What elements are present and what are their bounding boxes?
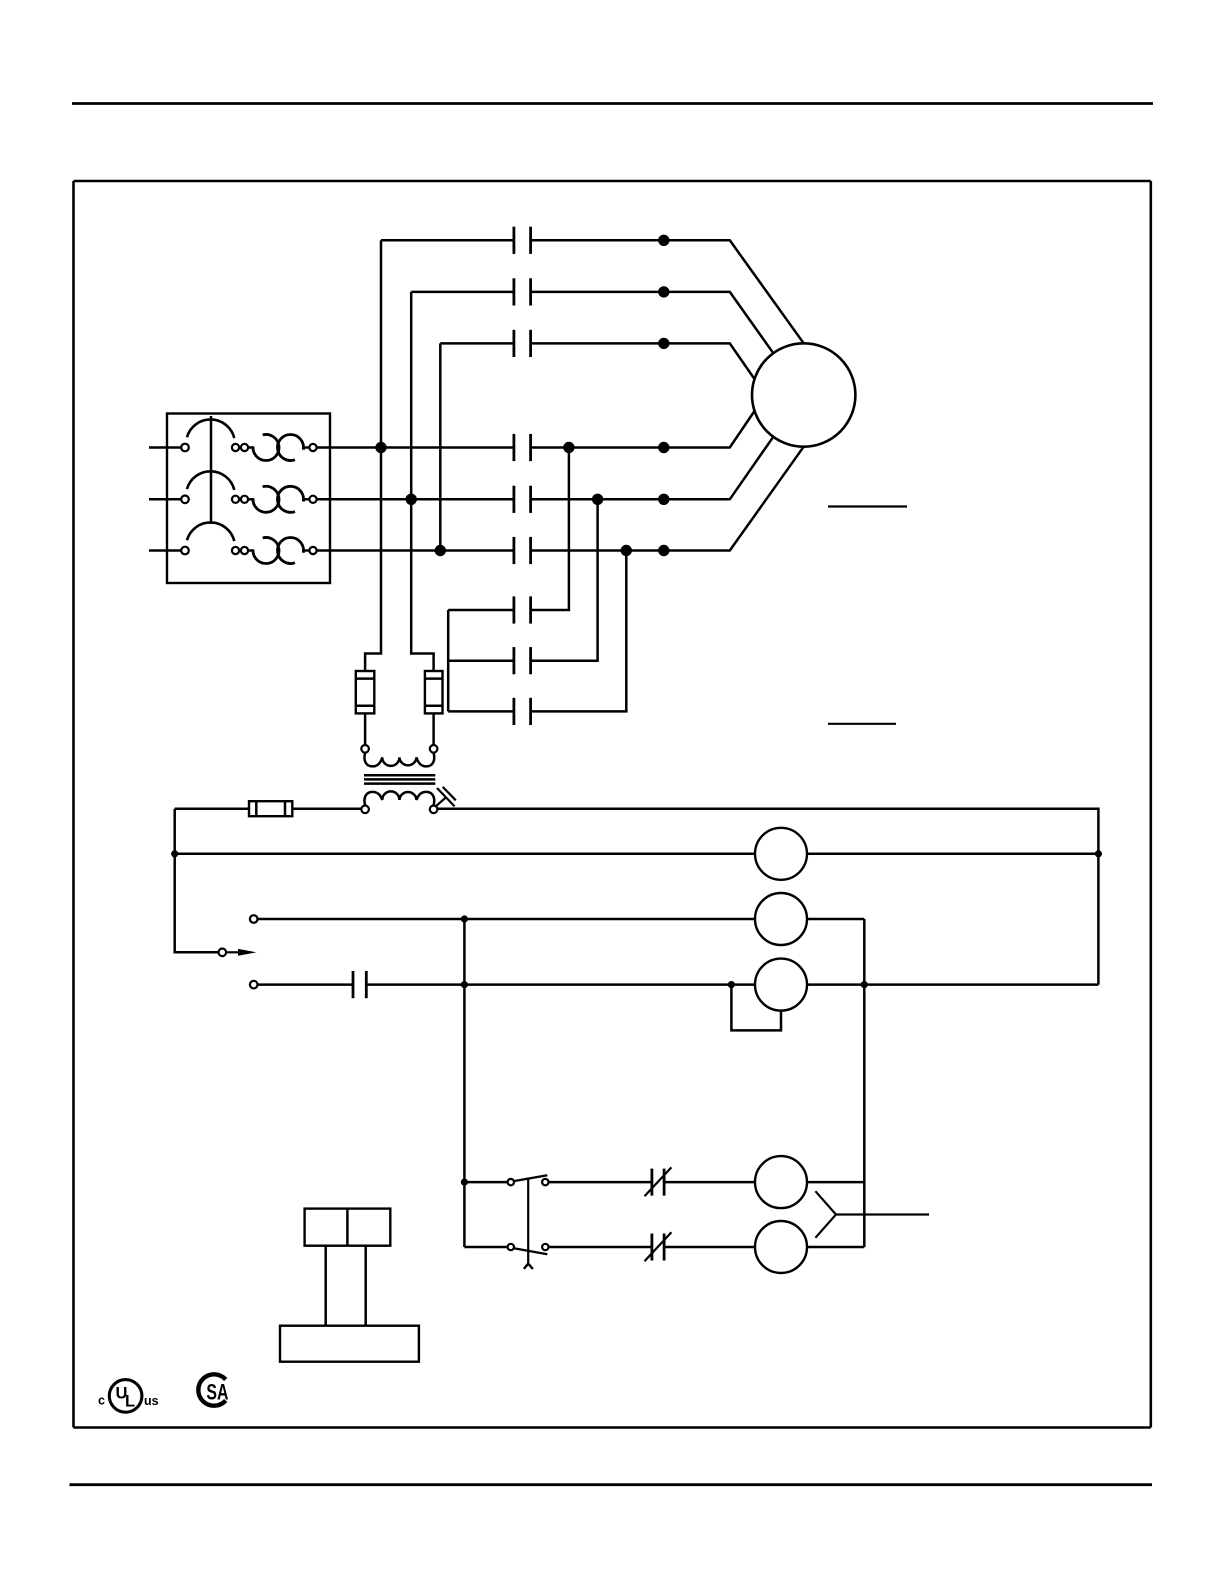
wire L1 (317, 446, 514, 449)
wire tap L2 to fuse F2 (411, 499, 433, 671)
star point wire (447, 610, 450, 711)
wire star contact 2 riser (531, 499, 598, 660)
coil loop wire (731, 985, 781, 1031)
CB1 pole 1 line terminal (181, 444, 189, 452)
coil M (755, 893, 807, 945)
wire riser to run contact 3 (439, 343, 442, 550)
wire run contact 1 to motor node (531, 239, 664, 242)
motor lead T5 (664, 437, 774, 500)
selector switch arrow (226, 951, 239, 953)
overload heater OL pole 2 (253, 486, 279, 512)
wire riser to run contact 2 (410, 292, 413, 499)
wire run contact 3 to motor node (531, 342, 664, 345)
node star riser 3 (621, 545, 632, 556)
wire row5 mid (549, 1181, 652, 1184)
node star riser 1 (563, 442, 574, 453)
wire row6 mid (549, 1246, 652, 1249)
wire control bus right (863, 919, 866, 1247)
svg-text:c: c (98, 1394, 105, 1408)
wire star contact 1 riser (531, 448, 569, 611)
node motor lead (658, 494, 669, 505)
node row4 b (728, 981, 735, 988)
transformer T1 secondary winding (364, 791, 434, 805)
star contactor contact S-2 (448, 659, 514, 662)
transformer T1 secondary terminals (361, 806, 369, 814)
wire row6 right (664, 1246, 864, 1249)
node L3 tap (435, 545, 446, 556)
NC contact row5 (651, 1169, 654, 1196)
star contactor contact S-3 (448, 710, 514, 713)
wire L2 (317, 498, 514, 501)
motor lead T6 (664, 447, 804, 551)
node motor lead (658, 286, 669, 297)
node row4 c (861, 981, 868, 988)
coil 1M (755, 1156, 807, 1208)
label line (contactor) (828, 723, 896, 725)
node L1 tap (375, 442, 386, 453)
coil 2M (755, 1221, 807, 1273)
node row3 (461, 915, 468, 922)
wire tap L1 to fuse F1 (365, 448, 381, 672)
main contactor contact 2M-3 (513, 537, 516, 564)
CSA logo (198, 1374, 228, 1405)
limit switch LS6 (508, 1244, 514, 1250)
wire riser to run contact 1 (380, 240, 383, 447)
wire star contact 3 riser (531, 551, 627, 712)
wire line terminal pole 2 (149, 498, 181, 501)
run contactor contact 1M-3 (440, 342, 514, 345)
wire control bus mid (463, 919, 466, 1247)
wire row5 left (464, 1181, 507, 1184)
auto contact terminal (250, 981, 258, 989)
motor lead T1 (664, 240, 804, 343)
overload heater OL pole 1 (253, 434, 279, 460)
coil S (755, 959, 807, 1011)
pressure switch contact (352, 971, 355, 998)
node rail2 left (171, 850, 178, 857)
run contactor contact 1M-1 (381, 239, 514, 242)
star contactor contact S-1 (448, 609, 514, 612)
fuse F2 (425, 671, 443, 713)
wire control rail top (437, 809, 1098, 985)
svg-text:L: L (125, 1393, 135, 1411)
transformer T1 primary terminals (361, 745, 369, 753)
wire line terminal pole 3 (149, 549, 181, 552)
node row4 a (461, 981, 468, 988)
node motor lead (658, 235, 669, 246)
wire row5 right (664, 1181, 864, 1184)
transformer T1 core (364, 774, 435, 777)
CB1 pole 1 load terminals (232, 444, 239, 451)
node star riser 2 (592, 494, 603, 505)
limit switch LS5 (508, 1179, 514, 1185)
wire run contact 2 to motor node (531, 291, 664, 294)
main contactor contact 2M-1 (513, 434, 516, 461)
CB1 pole 2 breaker contact arc (187, 471, 234, 490)
node rail2 right (1095, 850, 1102, 857)
motor lead T4 (664, 411, 755, 448)
CB1 pole 1 breaker contact arc (187, 419, 234, 438)
motor M1 (752, 343, 855, 446)
transformer fused-secondary mark (436, 797, 446, 806)
node L2 tap (406, 494, 417, 505)
label line (motor) (828, 505, 907, 507)
node bus mid row5 (461, 1179, 468, 1186)
motor lead T3 (664, 343, 755, 379)
svg-text:SA: SA (206, 1381, 228, 1405)
wire row3 (258, 918, 865, 921)
node motor lead (658, 338, 669, 349)
wire F2 to transformer (432, 713, 435, 745)
circuit breaker CB1 enclosure (167, 414, 330, 584)
hand contact terminal (250, 915, 258, 923)
CB1 trip tie bar (210, 416, 213, 524)
pedestal symbol top (305, 1209, 391, 1246)
CB1 pole 3 load terminals (232, 547, 239, 554)
wire phase 2 load side (531, 498, 664, 501)
bottom rule (70, 1483, 1153, 1486)
run contactor contact 1M-2 (411, 291, 514, 294)
wire L3 (317, 549, 514, 552)
pedestal symbol base (280, 1326, 419, 1362)
main contactor contact 2M-2 (513, 486, 516, 513)
mechanical interlock chevron (815, 1191, 836, 1238)
wire row4 left (258, 983, 354, 986)
wire phase 1 load side (531, 446, 664, 449)
wire line terminal pole 1 (149, 446, 181, 449)
NC contact row6 (651, 1234, 654, 1261)
svg-text:us: us (144, 1394, 159, 1408)
selector switch pivot (219, 949, 227, 957)
node motor lead (658, 545, 669, 556)
limit switch mechanical link (527, 1178, 529, 1264)
top rule (72, 102, 1153, 105)
pedestal symbol stem (324, 1246, 327, 1326)
motor lead T2 (664, 292, 774, 353)
wire control left drop (175, 809, 219, 953)
wire F1 to transformer (364, 713, 367, 745)
fuse F1 (356, 671, 375, 713)
CB1 pole 2 load terminals (232, 496, 239, 503)
wire row4 (366, 983, 1098, 986)
transformer T1 primary winding (364, 753, 434, 767)
CB1 pole 3 line terminal (181, 547, 189, 555)
CB1 pole 2 line terminal (181, 496, 189, 504)
UL logo (98, 1380, 159, 1413)
overload heater OL pole 3 (253, 537, 279, 563)
wire common rail 2 (175, 853, 1099, 856)
CB1 pole 3 breaker contact arc (187, 522, 234, 541)
wire row6 left (464, 1246, 507, 1249)
wire fuse to T1 (292, 807, 361, 810)
wire phase 3 load side (531, 549, 664, 552)
control fuse FU (175, 807, 249, 810)
pilot light PL1 (755, 828, 807, 880)
node motor lead (658, 442, 669, 453)
